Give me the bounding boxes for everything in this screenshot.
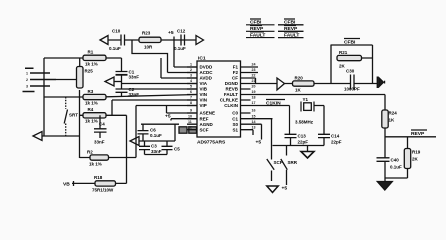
- svg-text:33nF: 33nF: [129, 92, 140, 97]
- svg-text:R21: R21: [339, 50, 348, 55]
- svg-text:S0: S0: [232, 122, 238, 127]
- svg-text:0.1uF: 0.1uF: [150, 133, 162, 138]
- svg-text:VIN: VIN: [200, 98, 208, 103]
- svg-text:Y1: Y1: [303, 97, 309, 102]
- svg-text:1k 1%: 1k 1%: [85, 62, 98, 67]
- svg-text:1: 1: [26, 72, 28, 76]
- svg-text:SRR: SRR: [288, 160, 298, 165]
- svg-text:22pF: 22pF: [298, 140, 309, 145]
- svg-text:13: 13: [252, 125, 256, 129]
- svg-text:3.58MHz: 3.58MHz: [295, 120, 314, 125]
- svg-text:R3: R3: [88, 89, 94, 94]
- svg-text:F2: F2: [233, 70, 239, 75]
- svg-text:5: 5: [190, 85, 192, 89]
- svg-text:R24: R24: [389, 111, 398, 116]
- svg-text:2: 2: [190, 68, 192, 72]
- svg-text:VIA: VIA: [200, 81, 208, 86]
- svg-text:3: 3: [26, 85, 28, 89]
- svg-text:DGND: DGND: [225, 81, 239, 86]
- svg-text:CFBI: CFBI: [344, 40, 356, 46]
- svg-text:CFBI: CFBI: [250, 20, 262, 26]
- svg-text:REVP: REVP: [250, 26, 264, 32]
- svg-text:C13: C13: [298, 134, 307, 139]
- svg-text:11: 11: [188, 120, 192, 124]
- svg-text:FAULT: FAULT: [224, 92, 238, 97]
- svg-text:R18: R18: [94, 175, 103, 180]
- svg-text:10R: 10R: [144, 45, 153, 50]
- svg-text:IC1: IC1: [198, 56, 206, 62]
- svg-text:VIP: VIP: [200, 103, 207, 108]
- svg-text:12: 12: [188, 125, 192, 129]
- svg-text:VB: VB: [63, 182, 70, 188]
- svg-text:33nF: 33nF: [94, 140, 105, 145]
- svg-text:4: 4: [190, 79, 192, 83]
- svg-text:24: 24: [252, 63, 256, 67]
- svg-text:FAULT: FAULT: [250, 32, 265, 38]
- svg-text:C12: C12: [177, 29, 186, 34]
- svg-text:C4: C4: [99, 122, 105, 127]
- svg-text:9: 9: [190, 109, 192, 113]
- svg-text:R23: R23: [142, 31, 151, 36]
- svg-text:+5: +5: [168, 30, 174, 36]
- svg-text:7: 7: [190, 96, 192, 100]
- svg-text:23: 23: [252, 68, 256, 72]
- svg-text:0.1uF: 0.1uF: [109, 46, 121, 51]
- svg-text:19: 19: [252, 90, 256, 94]
- svg-text:FAULT: FAULT: [284, 32, 299, 38]
- svg-text:17: 17: [252, 101, 256, 105]
- svg-text:16: 16: [252, 109, 256, 113]
- svg-text:6: 6: [190, 90, 192, 94]
- svg-text:VIB: VIB: [200, 87, 208, 92]
- svg-text:AVDD: AVDD: [200, 76, 213, 81]
- svg-text:1K: 1K: [389, 118, 396, 123]
- svg-text:REVB: REVB: [225, 87, 238, 92]
- svg-text:+5: +5: [256, 140, 262, 146]
- svg-text:C30: C30: [346, 69, 355, 74]
- svg-text:33nF: 33nF: [129, 75, 140, 80]
- svg-text:C14: C14: [331, 134, 340, 139]
- svg-text:REVP: REVP: [411, 131, 425, 137]
- svg-text:0.1uF: 0.1uF: [174, 46, 186, 51]
- svg-text:R19: R19: [412, 150, 421, 155]
- svg-text:C40: C40: [391, 158, 400, 163]
- svg-text:SRT: SRT: [69, 113, 78, 118]
- svg-text:1k 1%: 1k 1%: [85, 119, 98, 124]
- svg-text:2: 2: [26, 78, 28, 82]
- svg-text:CFBI: CFBI: [284, 20, 296, 26]
- svg-text:22: 22: [252, 74, 256, 78]
- svg-text:S1: S1: [232, 127, 238, 132]
- svg-text:1000PF: 1000PF: [344, 87, 360, 92]
- svg-text:75R1/10W: 75R1/10W: [92, 188, 114, 193]
- svg-text:1K: 1K: [295, 88, 302, 93]
- svg-text:C3: C3: [151, 144, 157, 149]
- svg-text:F1: F1: [233, 65, 239, 70]
- svg-text:3: 3: [190, 74, 192, 78]
- svg-text:VIN: VIN: [200, 92, 208, 97]
- svg-text:+5: +5: [165, 114, 171, 120]
- svg-text:ACDC: ACDC: [200, 70, 214, 75]
- svg-text:C1: C1: [232, 116, 238, 121]
- svg-text:SCF: SCF: [200, 127, 209, 132]
- svg-text:22pF: 22pF: [331, 140, 342, 145]
- svg-text:CLKIN: CLKIN: [224, 103, 238, 108]
- svg-text:C5: C5: [174, 147, 180, 152]
- svg-text:18: 18: [252, 96, 256, 100]
- svg-text:1k 1%: 1k 1%: [89, 162, 102, 167]
- svg-text:CF: CF: [232, 76, 238, 81]
- svg-text:R20: R20: [295, 76, 304, 81]
- svg-text:14: 14: [252, 120, 256, 124]
- svg-text:R1: R1: [88, 50, 94, 55]
- svg-text:REF: REF: [200, 116, 209, 121]
- svg-text:33nF: 33nF: [151, 149, 162, 154]
- svg-text:15: 15: [252, 114, 256, 118]
- svg-text:AGND: AGND: [200, 122, 214, 127]
- svg-text:10: 10: [188, 114, 192, 118]
- svg-text:2K: 2K: [412, 157, 419, 162]
- svg-text:20: 20: [252, 85, 256, 89]
- svg-text:2K: 2K: [339, 64, 346, 69]
- svg-text:C6: C6: [150, 128, 156, 133]
- svg-text:1k 1%: 1k 1%: [85, 101, 98, 106]
- svg-text:8: 8: [190, 101, 192, 105]
- svg-text:R2: R2: [87, 150, 93, 155]
- svg-text:C1KIN: C1KIN: [266, 100, 281, 106]
- svg-text:DVDD: DVDD: [200, 65, 214, 70]
- svg-text:+5: +5: [282, 186, 288, 192]
- svg-text:R4: R4: [88, 107, 94, 112]
- svg-text:21: 21: [252, 79, 256, 83]
- svg-text:C10: C10: [112, 29, 121, 34]
- svg-text:C0: C0: [232, 111, 238, 116]
- svg-text:REVP: REVP: [284, 26, 298, 32]
- svg-text:AD9775ARS: AD9775ARS: [197, 140, 226, 146]
- svg-text:CLRLKE: CLRLKE: [220, 98, 238, 103]
- svg-text:ASENE: ASENE: [200, 111, 216, 116]
- svg-text:SCF: SCF: [274, 160, 283, 165]
- svg-text:1: 1: [190, 63, 192, 67]
- svg-text:0.1uF: 0.1uF: [390, 165, 402, 170]
- svg-text:R25: R25: [85, 69, 94, 74]
